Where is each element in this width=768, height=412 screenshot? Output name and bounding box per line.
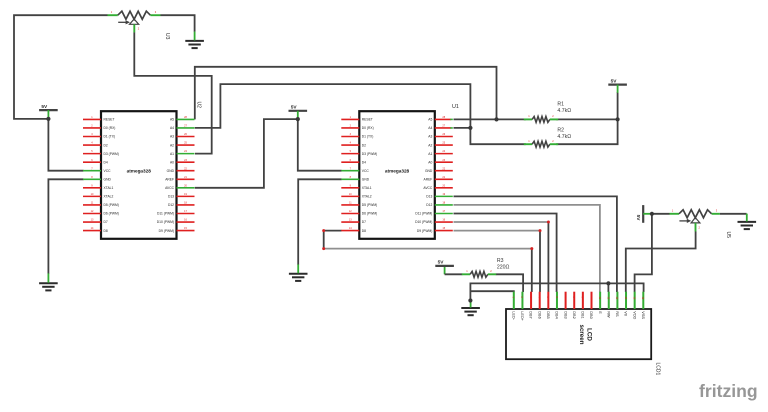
svg-text:4.7kΩ: 4.7kΩ [557, 108, 571, 114]
svg-text:LCD: LCD [585, 328, 592, 341]
svg-text:R2: R2 [557, 128, 564, 134]
svg-text:DB6: DB6 [537, 311, 541, 318]
svg-text:DB7: DB7 [529, 311, 533, 318]
svg-text:D7: D7 [362, 220, 366, 224]
svg-text:DB3: DB3 [563, 311, 567, 318]
svg-text:RS: RS [615, 311, 619, 317]
svg-text:RESET: RESET [104, 118, 115, 122]
svg-text:VSS: VSS [641, 311, 645, 319]
svg-text:D8: D8 [104, 229, 108, 233]
svg-text:D11 (PWM): D11 (PWM) [415, 212, 432, 216]
svg-text:XTAL2: XTAL2 [362, 195, 372, 199]
svg-text:D7: D7 [104, 220, 108, 224]
svg-text:5V: 5V [438, 260, 445, 266]
svg-text:U5: U5 [725, 232, 731, 239]
svg-text:DB1: DB1 [581, 311, 585, 318]
svg-text:D1 (TX): D1 (TX) [362, 135, 374, 139]
svg-text:D10 (PWM): D10 (PWM) [415, 220, 432, 224]
svg-text:A0: A0 [170, 160, 174, 164]
svg-text:fritzing: fritzing [699, 381, 758, 401]
svg-text:D0 (RX): D0 (RX) [104, 126, 116, 130]
svg-text:AVCC: AVCC [423, 186, 433, 190]
svg-text:GND: GND [362, 177, 370, 181]
svg-text:A1: A1 [428, 152, 432, 156]
svg-text:A4: A4 [428, 126, 432, 130]
svg-text:V0: V0 [624, 311, 628, 316]
svg-text:A4: A4 [170, 126, 174, 130]
svg-text:5V: 5V [291, 105, 298, 111]
svg-text:D6 (PWM): D6 (PWM) [104, 212, 119, 216]
svg-text:A2: A2 [170, 143, 174, 147]
svg-text:D6 (PWM): D6 (PWM) [362, 212, 377, 216]
svg-text:U2: U2 [196, 102, 202, 109]
svg-text:atmega328: atmega328 [127, 168, 152, 173]
svg-text:D8: D8 [362, 229, 366, 233]
svg-text:XTAL2: XTAL2 [104, 195, 114, 199]
svg-text:D9 (PWM): D9 (PWM) [417, 229, 432, 233]
svg-text:D13: D13 [426, 195, 432, 199]
svg-text:D13: D13 [168, 195, 174, 199]
svg-text:D9 (PWM): D9 (PWM) [159, 229, 174, 233]
svg-text:RW: RW [606, 311, 610, 318]
svg-text:VDD: VDD [632, 311, 636, 319]
svg-text:U1: U1 [452, 104, 459, 110]
svg-text:D12: D12 [168, 203, 174, 207]
svg-text:A3: A3 [428, 135, 432, 139]
svg-text:D4: D4 [104, 160, 108, 164]
svg-text:D12: D12 [426, 203, 432, 207]
svg-text:A5: A5 [170, 118, 174, 122]
svg-text:D0 (RX): D0 (RX) [362, 126, 374, 130]
svg-text:GND: GND [104, 177, 112, 181]
svg-text:LCD1: LCD1 [655, 363, 661, 376]
svg-text:D1 (TX): D1 (TX) [104, 135, 116, 139]
svg-text:AVCC: AVCC [165, 186, 175, 190]
svg-text:4.7kΩ: 4.7kΩ [557, 134, 571, 140]
svg-text:D2: D2 [362, 143, 366, 147]
svg-text:D11 (PWM): D11 (PWM) [157, 212, 174, 216]
svg-text:LED-: LED- [511, 311, 515, 320]
svg-text:D5 (PWM): D5 (PWM) [362, 203, 377, 207]
svg-text:D4: D4 [362, 160, 366, 164]
svg-text:A5: A5 [428, 118, 432, 122]
svg-text:VCC: VCC [362, 169, 370, 173]
svg-text:5V: 5V [611, 78, 618, 84]
svg-text:A3: A3 [170, 135, 174, 139]
svg-text:GND: GND [425, 169, 433, 173]
svg-text:AREF: AREF [424, 177, 433, 181]
svg-text:D10 (PWM): D10 (PWM) [157, 220, 174, 224]
svg-text:VCC: VCC [104, 169, 112, 173]
svg-text:R1: R1 [557, 102, 564, 108]
svg-text:atmega328: atmega328 [385, 168, 410, 173]
svg-text:DB2: DB2 [572, 311, 576, 318]
svg-text:5V: 5V [635, 215, 641, 222]
svg-text:XTAL1: XTAL1 [104, 186, 114, 190]
svg-text:DB5: DB5 [546, 311, 550, 318]
svg-text:D3 (PWM): D3 (PWM) [362, 152, 377, 156]
svg-text:220Ω: 220Ω [497, 265, 510, 271]
svg-text:U3: U3 [164, 33, 170, 40]
svg-text:A2: A2 [428, 143, 432, 147]
svg-text:RESET: RESET [362, 118, 373, 122]
svg-text:DB4: DB4 [555, 311, 559, 318]
svg-text:D3 (PWM): D3 (PWM) [104, 152, 119, 156]
svg-text:A1: A1 [170, 152, 174, 156]
svg-text:GND: GND [167, 169, 175, 173]
svg-text:D2: D2 [104, 143, 108, 147]
svg-text:D5 (PWM): D5 (PWM) [104, 203, 119, 207]
svg-text:5V: 5V [41, 104, 48, 110]
svg-text:A0: A0 [428, 160, 432, 164]
svg-text:LED+: LED+ [520, 311, 524, 321]
svg-text:screen: screen [578, 325, 585, 345]
svg-text:XTAL1: XTAL1 [362, 186, 372, 190]
svg-text:R3: R3 [497, 258, 504, 264]
svg-text:DB0: DB0 [589, 311, 593, 318]
svg-text:AREF: AREF [165, 177, 174, 181]
